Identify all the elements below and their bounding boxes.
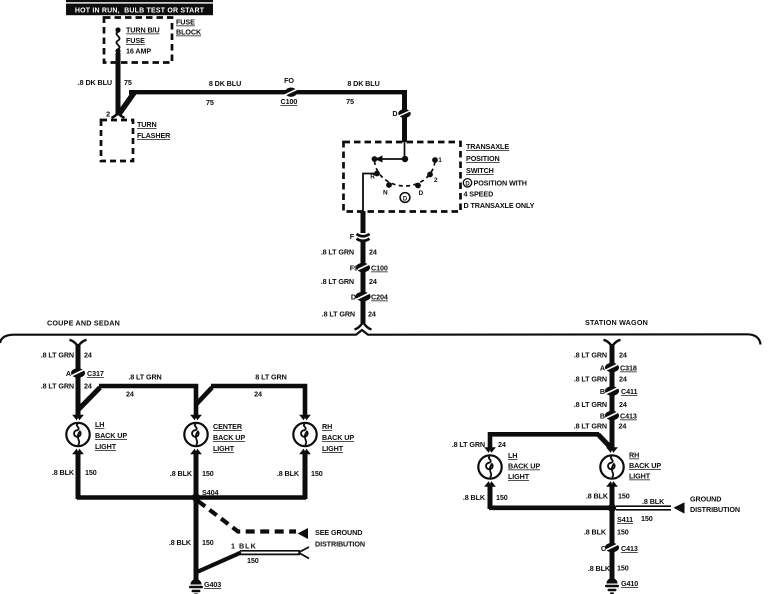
section divider line <box>0 330 761 345</box>
svg-text:A: A <box>66 369 71 378</box>
svg-text:.8 BLK: .8 BLK <box>170 469 193 478</box>
svg-text:C100: C100 <box>371 264 388 273</box>
coupe ground bus <box>77 495 306 500</box>
wire .8 BLK 150 LH lamp ground <box>52 453 97 499</box>
LH back up light lamp <box>66 415 127 454</box>
svg-text:.8 BLK: .8 BLK <box>277 469 300 478</box>
svg-text:24: 24 <box>368 310 376 319</box>
svg-text:24: 24 <box>498 440 506 449</box>
svg-text:16 AMP: 16 AMP <box>126 47 151 56</box>
svg-text:75: 75 <box>346 97 354 106</box>
svg-text:24: 24 <box>619 422 627 431</box>
svg-text:LH: LH <box>508 451 517 460</box>
wire .8 LT GRN 24 wagon seg c <box>574 395 627 412</box>
wire .8 BLK 150 RH lamp ground <box>277 453 323 499</box>
svg-text:S404: S404 <box>202 488 218 497</box>
svg-text:STATION WAGON: STATION WAGON <box>585 318 648 327</box>
splice S404 <box>192 488 219 502</box>
svg-text:N: N <box>383 190 388 197</box>
LH back up light lamp (wagon) <box>478 447 540 486</box>
svg-text:COUPE AND SEDAN: COUPE AND SEDAN <box>47 319 120 328</box>
svg-text:S411: S411 <box>617 515 633 524</box>
switch circled D contact <box>400 193 410 203</box>
switch wiper arm and node <box>372 142 409 163</box>
svg-text:BACK UP: BACK UP <box>508 462 540 471</box>
banner HOT IN RUN, BULB TEST OR START <box>66 0 213 15</box>
svg-text:B: B <box>600 387 605 396</box>
svg-text:F: F <box>350 232 355 241</box>
svg-text:BACK UP: BACK UP <box>95 431 127 440</box>
svg-text:GROUND: GROUND <box>690 495 721 504</box>
switch contact arc P R N D 2 1 <box>370 157 442 197</box>
ground G410 <box>605 578 638 594</box>
svg-text:.8 LT GRN: .8 LT GRN <box>574 400 607 409</box>
wagon ground bus <box>489 505 614 510</box>
svg-text:24: 24 <box>254 390 262 399</box>
svg-text:150: 150 <box>618 492 630 501</box>
svg-text:24: 24 <box>126 390 134 399</box>
wire from R contact to F terminal <box>363 174 377 212</box>
note D POSITION WITH 4 SPEED D TRANSAXLE ONLY <box>463 179 534 211</box>
wire .8 LT GRN 24 wagon seg d <box>574 419 627 450</box>
svg-text:F9: F9 <box>350 264 358 273</box>
wire fuse output .8 DK BLU 75 to turn flasher terminal 2 <box>78 53 132 119</box>
label TURN FLASHER <box>137 120 171 140</box>
svg-text:TRANSAXLE: TRANSAXLE <box>466 142 509 151</box>
svg-text:24: 24 <box>619 375 627 384</box>
svg-text:D: D <box>465 181 470 187</box>
branch diagonal to bus 1 <box>78 388 100 411</box>
svg-text:TURN: TURN <box>137 120 157 129</box>
svg-text:150: 150 <box>496 493 508 502</box>
svg-text:.8 BLK: .8 BLK <box>463 493 486 502</box>
svg-text:1: 1 <box>438 157 442 164</box>
connector C317 terminal A <box>66 368 104 378</box>
branch wire 1 BLK 150 to ground distribution <box>197 542 309 573</box>
center back up light lamp <box>184 415 245 454</box>
svg-text:CENTER: CENTER <box>213 422 243 431</box>
svg-text:G403: G403 <box>204 580 221 589</box>
svg-text:C411: C411 <box>621 387 637 396</box>
connector C411 terminal B <box>600 386 638 396</box>
svg-text:D: D <box>403 196 408 202</box>
wire .8 BLK 150 to G403 <box>169 498 214 581</box>
svg-text:75: 75 <box>124 78 132 87</box>
wire branch diagonal to main feed <box>119 92 135 114</box>
svg-text:.8 BLK: .8 BLK <box>588 564 611 573</box>
wire .8 LT GRN 24 seg b <box>321 271 377 293</box>
svg-text:.8 BLK: .8 BLK <box>52 468 75 477</box>
fuse block box <box>104 18 172 63</box>
wagon bus wire .8 LT GRN 24 <box>452 434 612 449</box>
connector C318 terminal A <box>600 363 637 373</box>
svg-text:C413: C413 <box>621 544 638 553</box>
svg-text:BACK UP: BACK UP <box>629 461 661 470</box>
svg-text:BLOCK: BLOCK <box>176 28 202 37</box>
svg-text:150: 150 <box>617 564 629 573</box>
wire drop to switch terminal D <box>392 90 412 142</box>
svg-text:C413: C413 <box>620 412 637 421</box>
svg-text:8 DK BLU: 8 DK BLU <box>347 79 379 88</box>
svg-text:4 SPEED: 4 SPEED <box>464 190 494 199</box>
svg-text:FLASHER: FLASHER <box>137 131 171 140</box>
svg-text:24: 24 <box>369 248 377 257</box>
svg-text:2: 2 <box>106 110 110 119</box>
wire .8 LT GRN 24 to LH lamp <box>41 377 92 416</box>
wire .8 BLK 150 center lamp ground <box>170 453 214 499</box>
turn flasher box <box>101 120 133 161</box>
RH back up light lamp (wagon) <box>600 447 661 486</box>
svg-text:C100: C100 <box>281 97 298 106</box>
svg-text:.8 BLK: .8 BLK <box>586 492 609 501</box>
svg-text:LIGHT: LIGHT <box>322 444 344 453</box>
label TRANSAXLE POSITION SWITCH <box>466 142 509 175</box>
svg-text:SEE GROUND: SEE GROUND <box>315 528 362 537</box>
svg-text:C: C <box>601 544 606 553</box>
wire 8 DK BLU 75 segment 1 <box>129 79 407 107</box>
wire .8 BLK 150 wagon LH lamp ground <box>463 486 508 509</box>
svg-text:1 BLK: 1 BLK <box>231 542 257 551</box>
svg-text:POSITION WITH: POSITION WITH <box>474 179 527 188</box>
svg-text:B: B <box>600 412 605 421</box>
svg-text:DISTRIBUTION: DISTRIBUTION <box>690 505 740 514</box>
svg-text:LIGHT: LIGHT <box>629 472 651 481</box>
svg-text:C318: C318 <box>620 364 637 373</box>
wire .8 BLK 150 below S411 <box>584 508 629 543</box>
svg-text:LH: LH <box>95 420 104 429</box>
svg-text:24: 24 <box>84 351 92 360</box>
svg-text:TURN B/U: TURN B/U <box>126 26 160 35</box>
wire .8 LT GRN 24 seg a <box>321 241 377 263</box>
ground G403 <box>189 579 221 594</box>
svg-text:POSITION: POSITION <box>466 154 500 163</box>
svg-text:150: 150 <box>641 514 653 523</box>
svg-text:150: 150 <box>85 468 97 477</box>
svg-text:LIGHT: LIGHT <box>508 472 530 481</box>
svg-text:8 LT GRN: 8 LT GRN <box>255 373 286 382</box>
svg-text:RH: RH <box>322 422 332 431</box>
svg-text:BACK UP: BACK UP <box>322 433 354 442</box>
svg-text:.8 LT GRN: .8 LT GRN <box>574 422 607 431</box>
svg-text:R: R <box>370 174 375 181</box>
svg-text:DISTRIBUTION: DISTRIBUTION <box>315 540 365 549</box>
svg-text:D: D <box>419 190 424 197</box>
wire .8 LT GRN 24 seg c with break <box>322 300 376 330</box>
svg-text:.8 BLK: .8 BLK <box>642 497 665 506</box>
svg-text:FO: FO <box>284 76 294 85</box>
dashed branch to ground distribution <box>198 501 365 549</box>
connector C100 terminal FO <box>281 76 299 106</box>
svg-text:.8 LT GRN: .8 LT GRN <box>41 351 74 360</box>
svg-text:.8 LT GRN: .8 LT GRN <box>574 375 607 384</box>
svg-text:.8 LT GRN: .8 LT GRN <box>321 277 354 286</box>
svg-text:150: 150 <box>202 538 214 547</box>
wagon feed wire with break hook <box>574 340 627 364</box>
svg-text:D: D <box>392 109 397 118</box>
svg-text:LIGHT: LIGHT <box>95 442 117 451</box>
svg-text:LIGHT: LIGHT <box>213 444 235 453</box>
svg-text:8 DK BLU: 8 DK BLU <box>209 79 241 88</box>
label FUSE BLOCK <box>176 18 202 37</box>
svg-text:D: D <box>351 293 356 302</box>
connector C100 terminal F9 <box>350 263 388 273</box>
connector C413 terminal B <box>600 411 637 421</box>
branch diagonal to bus 2 <box>197 388 213 405</box>
svg-text:150: 150 <box>247 556 259 565</box>
wire .8 BLK 150 wagon RH lamp ground <box>586 486 630 509</box>
svg-text:FUSE: FUSE <box>126 36 145 45</box>
svg-text:HOT IN RUN, BULB TEST OR STAR: HOT IN RUN, BULB TEST OR START <box>75 7 205 14</box>
svg-text:.8 LT GRN: .8 LT GRN <box>322 310 355 319</box>
svg-text:.8 LT GRN: .8 LT GRN <box>574 351 607 360</box>
svg-text:G410: G410 <box>621 579 638 588</box>
svg-text:C317: C317 <box>87 369 104 378</box>
svg-text:.8 DK BLU: .8 DK BLU <box>78 78 112 87</box>
terminal F <box>350 232 370 241</box>
svg-text:150: 150 <box>202 469 214 478</box>
svg-text:BACK UP: BACK UP <box>213 433 245 442</box>
RH back up light lamp (coupe) <box>293 415 354 454</box>
svg-text:150: 150 <box>617 528 629 537</box>
svg-text:A: A <box>600 364 605 373</box>
fuse TURN B/U FUSE 16 AMP <box>115 26 159 56</box>
svg-text:RH: RH <box>629 451 639 460</box>
wire 8 DK BLU 75 segment 2 <box>346 79 380 106</box>
svg-text:.8 LT GRN: .8 LT GRN <box>41 382 74 391</box>
svg-text:2: 2 <box>434 177 438 184</box>
svg-text:24: 24 <box>369 277 377 286</box>
connector C413 terminal C <box>601 543 638 553</box>
svg-text:75: 75 <box>206 98 214 107</box>
svg-text:.8 BLK: .8 BLK <box>584 528 607 537</box>
wire .8 BLK 150 to ground distribution (wagon) <box>616 495 740 524</box>
bus wire 8 LT GRN 24 (coupe bus 2) <box>211 373 305 417</box>
svg-text:150: 150 <box>311 469 323 478</box>
connector C204 terminal D <box>351 292 388 302</box>
svg-text:24: 24 <box>619 351 627 360</box>
svg-text:24: 24 <box>84 382 92 391</box>
splice S411 <box>608 504 633 524</box>
svg-text:.8 LT GRN: .8 LT GRN <box>128 373 161 382</box>
svg-text:D TRANSAXLE ONLY: D TRANSAXLE ONLY <box>464 201 535 210</box>
bus wire .8 LT GRN 24 (coupe bus 1) <box>99 373 196 417</box>
wire .8 LT GRN 24 wagon seg b <box>574 371 627 387</box>
transaxle position switch box <box>344 142 461 212</box>
svg-text:C204: C204 <box>371 293 388 302</box>
svg-text:24: 24 <box>619 400 627 409</box>
svg-text:.8 LT GRN: .8 LT GRN <box>321 248 354 257</box>
svg-text:.8 BLK: .8 BLK <box>169 538 192 547</box>
svg-text:.8 LT GRN: .8 LT GRN <box>452 440 485 449</box>
coupe feed wire with break hook <box>41 340 92 369</box>
wire switch output <box>361 211 366 233</box>
wire .8 BLK 150 to G410 <box>588 551 629 579</box>
svg-text:FUSE: FUSE <box>176 18 195 27</box>
svg-text:SWITCH: SWITCH <box>466 166 494 175</box>
